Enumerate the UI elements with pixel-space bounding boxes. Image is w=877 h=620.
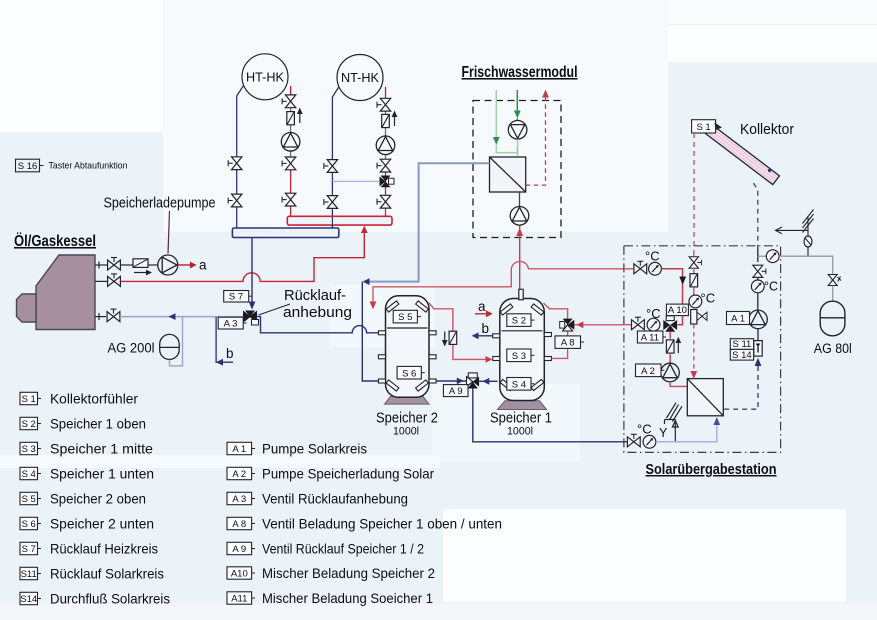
valve NT return upper: [324, 160, 338, 173]
boiler burner tab: [17, 294, 37, 322]
pump A2: [661, 363, 680, 382]
valve collector supply: [689, 257, 701, 269]
valve NT supply top: [377, 98, 391, 111]
wire HT supply pipe: [290, 86, 292, 96]
wire FWM cold side to tank grey: [369, 163, 490, 281]
valve A11 left: [632, 317, 645, 330]
mixer A11 three-way: [663, 316, 677, 332]
wire valve to filter: [121, 264, 134, 266]
Solaruebergabestation enclosure dash-dot: [624, 246, 781, 453]
sensor label S1 top: [692, 120, 716, 133]
legend A3: [227, 492, 255, 505]
wire expansion line grey: [779, 256, 833, 274]
svg-text:A 1: A 1: [232, 444, 246, 455]
svg-text:a: a: [199, 258, 207, 273]
tank Speicher 1: [500, 299, 545, 401]
svg-text:S 7: S 7: [22, 544, 36, 555]
svg-text:A 3: A 3: [224, 319, 238, 330]
svg-text:Ventil Rücklauf Speicher 1 / 2: Ventil Rücklauf Speicher 1 / 2: [262, 541, 424, 557]
valve cap expansion: [828, 275, 841, 286]
leader line Speicherladepumpe: [168, 211, 170, 254]
svg-text:Kollektor: Kollektor: [740, 122, 794, 138]
check valve NT: [382, 114, 390, 127]
legend A2: [227, 467, 255, 480]
wire A1 to flow meter: [757, 329, 759, 341]
wire NT bypass: [332, 180, 379, 182]
check valve HT: [287, 112, 295, 125]
wire FWM hot return dashed red: [526, 98, 546, 186]
pump Speicherladepumpe: [158, 255, 178, 275]
nozzle Sp1 top-left: [500, 304, 513, 315]
svg-text:S 5: S 5: [22, 494, 36, 505]
wire cold water inlet green: [495, 90, 497, 137]
wire return to Speicher 2 bottom navy: [362, 282, 378, 381]
sensor label S4: [507, 378, 535, 391]
valve HT return lower: [228, 194, 242, 207]
sensor label S3: [507, 349, 535, 362]
legend sensors: [20, 392, 255, 605]
valve NT three-way mixer: [380, 176, 395, 188]
wire filter to pump: [148, 264, 158, 266]
svg-text:°C: °C: [701, 291, 716, 306]
svg-text:S 16: S 16: [18, 161, 38, 172]
heat exchanger FWM: [490, 157, 526, 192]
valve NT return lower: [324, 196, 338, 209]
svg-text:S11: S11: [21, 569, 37, 580]
svg-text:Speicherladepumpe: Speicherladepumpe: [104, 195, 216, 212]
valve boiler return: [107, 309, 120, 322]
svg-text:A 2: A 2: [232, 469, 246, 480]
wire collector sensor dashed red: [693, 133, 695, 252]
svg-text:S 1: S 1: [696, 122, 710, 133]
legend A1: [227, 442, 255, 455]
check valve collector supply: [690, 274, 698, 287]
tank base Speicher 2: [385, 396, 430, 404]
boiler supply connection 2: [95, 280, 107, 282]
wire NT return crossing bar: [331, 217, 333, 228]
valve station top-left: [634, 261, 647, 274]
wire Sp2 bottom to A9: [436, 380, 466, 382]
label box A10: [666, 304, 688, 316]
svg-text:S 11: S 11: [732, 339, 751, 350]
svg-text:Rücklauf Solarkreis: Rücklauf Solarkreis: [50, 566, 164, 582]
svg-text:A10: A10: [231, 568, 248, 579]
svg-text:S 2: S 2: [22, 419, 36, 430]
flow meter S14: [754, 341, 762, 357]
legend A8: [227, 517, 255, 530]
svg-text:b: b: [226, 346, 234, 361]
nozzle Sp2 bottom-right: [416, 380, 429, 391]
wire FWM primary feed red: [519, 225, 521, 289]
svg-text:S 2: S 2: [512, 316, 526, 327]
pump HT: [281, 133, 300, 152]
sensor label S5: [393, 310, 421, 323]
wire boiler return line: [120, 316, 244, 318]
pump FWM primary: [510, 207, 529, 226]
svg-text:Ventil Beladung Speicher 1 obe: Ventil Beladung Speicher 1 oben / unten: [262, 516, 502, 532]
valve A9 three-way: [467, 373, 480, 389]
svg-text:S 14: S 14: [732, 350, 752, 361]
wire station charge top red: [624, 268, 634, 270]
valve boiler mid: [108, 274, 121, 287]
thermometer A10: [689, 295, 702, 308]
wire NT return pipe: [332, 87, 339, 229]
filter: [133, 259, 148, 268]
legend S11: [20, 567, 41, 580]
legend S5: [20, 492, 41, 505]
heating circuit NT-HK: [337, 55, 383, 101]
svg-text:°C: °C: [645, 249, 660, 264]
wire Sp1 top to A8: [544, 303, 568, 319]
valve A8 three-way: [560, 319, 575, 331]
legend A9: [227, 542, 255, 555]
legend A10: [227, 567, 255, 580]
svg-text:Pumpe Solarkreis: Pumpe Solarkreis: [262, 441, 367, 457]
wire to exchanger bottom: [656, 425, 717, 442]
svg-text:A 3: A 3: [232, 494, 246, 505]
sensor label S2: [507, 314, 535, 327]
svg-text:Speicher 2 unten: Speicher 2 unten: [50, 516, 154, 532]
legend S2: [20, 417, 41, 430]
pump FWM circulation: [508, 121, 527, 140]
svg-text:S 6: S 6: [22, 519, 36, 530]
manometer solar: [766, 250, 779, 263]
nozzle Sp1 bottom-left: [500, 379, 513, 390]
stub Sp1 left low: [493, 357, 500, 361]
wire A8 to Sp1 mid: [552, 331, 568, 359]
sensor label S6: [397, 366, 425, 379]
pump NT: [376, 136, 395, 155]
check valve solar charge: [666, 340, 674, 353]
wire flow meter to exchanger dashed navy: [755, 358, 762, 366]
valve HT supply top: [282, 95, 296, 108]
wire station bottom: [624, 441, 628, 443]
svg-text:S 4: S 4: [22, 469, 36, 480]
legend S3: [20, 442, 41, 455]
legend A11: [227, 592, 255, 605]
stub Sp2 left low: [378, 355, 385, 359]
tee to manometer: [758, 255, 767, 257]
svg-text:A 8: A 8: [232, 519, 246, 530]
wire red boiler supply to riser: [121, 233, 365, 281]
boiler Oel/Gaskessel body: [36, 255, 95, 330]
wire Speicher2 top to Speicher1 mid red: [429, 303, 453, 332]
svg-text:A 10: A 10: [668, 305, 687, 316]
svg-text:Ventil Rücklaufanhebung: Ventil Rücklaufanhebung: [262, 491, 408, 507]
svg-text:A 8: A 8: [561, 338, 575, 349]
svg-text:1000l: 1000l: [393, 426, 419, 438]
svg-text:S 3: S 3: [22, 444, 36, 455]
svg-text:Speicher 1 unten: Speicher 1 unten: [50, 466, 154, 482]
svg-text:S 7: S 7: [229, 292, 243, 303]
svg-text:NT-HK: NT-HK: [341, 70, 379, 85]
heating circuit HT-HK: [242, 54, 288, 100]
sensor label S7: [224, 291, 252, 303]
safety relief group: [665, 403, 683, 442]
label box A8: [555, 336, 584, 349]
stub Sp2 right mid: [429, 331, 436, 335]
wire A8 to station: [574, 324, 624, 326]
label box A11: [637, 331, 666, 343]
wire to A10 riser: [662, 269, 683, 325]
check valve inter-tank: [449, 331, 457, 344]
wire station A11 feed red: [624, 324, 632, 326]
nozzle Sp2 top-right: [416, 301, 429, 312]
stub Sp1 right mid: [544, 333, 551, 337]
legend sensor texts: [50, 391, 170, 607]
boiler supply connection a: [95, 262, 107, 269]
node b branch at A3: [216, 317, 233, 362]
stub Sp2 left bottom: [378, 379, 385, 383]
valve NT supply mid: [377, 159, 391, 172]
valve boiler top: [108, 258, 121, 271]
legend S7: [20, 542, 41, 555]
wire vessel to return: [170, 317, 183, 366]
sensor label S16: [16, 159, 44, 172]
label box A2: [636, 364, 665, 377]
wire collector return dashed navy: [754, 183, 758, 246]
wire collector return inside station: [757, 246, 759, 262]
label Ruecklaufanhebung: [259, 304, 291, 315]
wire valve to vessel: [832, 286, 834, 302]
thermometer solar return: [757, 278, 759, 281]
tank base Speicher 1: [498, 401, 547, 410]
sensor label S11: [730, 339, 753, 351]
boiler return connection: [95, 313, 106, 320]
valve solar return: [753, 265, 766, 277]
legend S1: [20, 392, 41, 405]
return distributor bar: [232, 228, 338, 238]
svg-text:A 1: A 1: [731, 314, 745, 325]
svg-text:a: a: [478, 299, 486, 314]
pump A1: [749, 310, 768, 329]
svg-text:Rücklauf Heizkreis: Rücklauf Heizkreis: [50, 541, 158, 557]
svg-text:°C: °C: [637, 422, 652, 437]
legend actuator texts: [262, 441, 502, 607]
wire FWM exchanger to pump: [519, 192, 521, 207]
tank Speicher 2: [386, 296, 430, 398]
wire A10 to exchanger dashed red: [693, 324, 695, 372]
sensor label S14: [730, 349, 753, 361]
wire collector supply inside station: [693, 252, 695, 258]
wire A9 to station bottom: [473, 389, 624, 442]
svg-text:A 2: A 2: [641, 366, 655, 377]
Frischwassermodul dashed enclosure: [473, 101, 561, 238]
wire Sp1 bottom to A9: [479, 380, 497, 382]
svg-text:Durchfluß Solarkreis: Durchfluß Solarkreis: [50, 591, 170, 607]
stub Sp2 left mid: [378, 331, 385, 335]
svg-text:°C: °C: [764, 280, 778, 294]
stub Sp2 right low: [429, 355, 436, 359]
vent line atmosphere: [803, 210, 814, 256]
svg-text:S 4: S 4: [512, 379, 526, 390]
mixer A10 body: [691, 310, 697, 325]
svg-text:Öl/Gaskessel: Öl/Gaskessel: [14, 233, 96, 250]
svg-text:Speicher 2: Speicher 2: [376, 411, 438, 427]
collector panel: [703, 123, 780, 185]
svg-text:S 3: S 3: [512, 351, 526, 362]
svg-text:Frischwassermodul: Frischwassermodul: [462, 64, 578, 81]
svg-text:S 6: S 6: [402, 368, 416, 379]
svg-text:1000l: 1000l: [507, 426, 533, 438]
label box A3: [218, 317, 246, 329]
svg-text:Rücklauf-: Rücklauf-: [284, 287, 346, 304]
valve HT return upper: [228, 157, 242, 170]
svg-text:S14: S14: [20, 594, 37, 605]
svg-text:Speicher 1: Speicher 1: [490, 411, 552, 427]
svg-text:Taster Abtaufunktion: Taster Abtaufunktion: [49, 161, 128, 172]
svg-text:A 9: A 9: [449, 386, 463, 397]
expansion vessel AG 80l: [820, 301, 845, 336]
wire A2 to exchanger: [670, 382, 687, 387]
legend S6: [20, 517, 41, 530]
svg-text:S 1: S 1: [22, 394, 36, 405]
stub Sp1 right low: [544, 357, 551, 361]
svg-text:AG 80l: AG 80l: [814, 341, 852, 356]
svg-text:Speicher 1 mitte: Speicher 1 mitte: [50, 441, 153, 457]
supply distributor bar: [287, 216, 392, 225]
stub Sp1 left mid: [493, 334, 500, 338]
nozzle Sp1 top-right: [531, 304, 544, 315]
wire warm water circulation green: [516, 90, 518, 111]
svg-text:S 5: S 5: [398, 312, 412, 323]
valve A3 three-way: [244, 311, 259, 326]
nozzle Sp2 top-left: [386, 301, 399, 312]
valve HT supply mid: [282, 157, 296, 170]
svg-text:Kollektorfühler: Kollektorfühler: [50, 391, 138, 407]
svg-text:A11: A11: [231, 593, 247, 604]
wire S7 drop from distributor: [251, 238, 253, 309]
svg-text:anhebung: anhebung: [283, 304, 352, 321]
svg-text:Mischer Beladung Soeicher 1: Mischer Beladung Soeicher 1: [262, 590, 433, 606]
svg-text:HT-HK: HT-HK: [246, 69, 284, 84]
heat exchanger solar: [687, 379, 723, 416]
label box A9: [443, 385, 468, 397]
valve NT supply low: [377, 195, 391, 208]
svg-text:Speicher 1 oben: Speicher 1 oben: [50, 416, 146, 432]
wire solar to Speicher 2 top pink: [373, 261, 624, 302]
wire A11 down: [669, 332, 671, 339]
valve HT supply low: [282, 193, 296, 206]
legend S4: [20, 467, 41, 480]
svg-text:Speicher 2 oben: Speicher 2 oben: [50, 491, 146, 507]
svg-text:b: b: [482, 321, 490, 336]
air separator: [804, 236, 812, 247]
stub Sp2 right bottom: [429, 379, 436, 383]
valve station bottom: [627, 434, 640, 447]
label box A1: [727, 312, 750, 325]
svg-text:Mischer Beladung Speicher 2: Mischer Beladung Speicher 2: [262, 565, 435, 581]
wire HT return pipe: [237, 86, 244, 229]
arrow vent outlet: [776, 227, 809, 234]
svg-text:Y: Y: [659, 426, 668, 440]
nozzle Sp2 bottom-left: [386, 380, 399, 391]
svg-text:A 9: A 9: [232, 544, 246, 555]
wire pump to arrow a: [178, 264, 190, 266]
svg-text:Pumpe Speicherladung Solar: Pumpe Speicherladung Solar: [262, 466, 434, 482]
expansion vessel AG 200l: [160, 334, 180, 359]
svg-text:AG 200l: AG 200l: [108, 341, 155, 356]
svg-text:A 11: A 11: [641, 332, 659, 343]
legend S14: [20, 592, 41, 605]
wire A3 to Speicher 2 mid: [256, 317, 379, 333]
arrow sensor attachment: [715, 123, 723, 131]
svg-text:Solarübergabestation: Solarübergabestation: [646, 462, 777, 478]
stub Sp1 top center: [519, 289, 523, 300]
nozzle Sp1 bottom-right: [531, 379, 544, 390]
wire NT supply pipe: [385, 87, 387, 99]
